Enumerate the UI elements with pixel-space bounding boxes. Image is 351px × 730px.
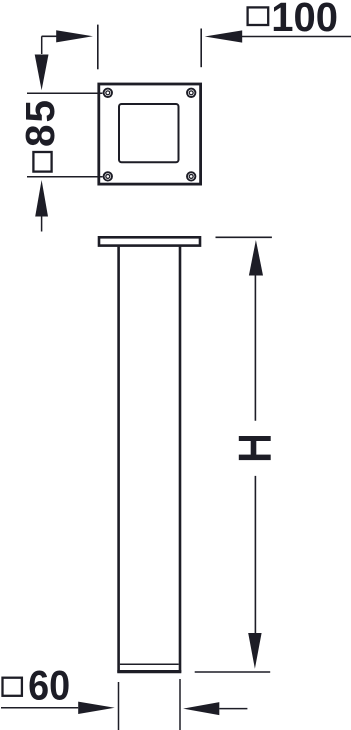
svg-text:100: 100	[271, 0, 338, 40]
svg-text:85: 85	[17, 98, 63, 147]
svg-text:60: 60	[28, 663, 70, 709]
